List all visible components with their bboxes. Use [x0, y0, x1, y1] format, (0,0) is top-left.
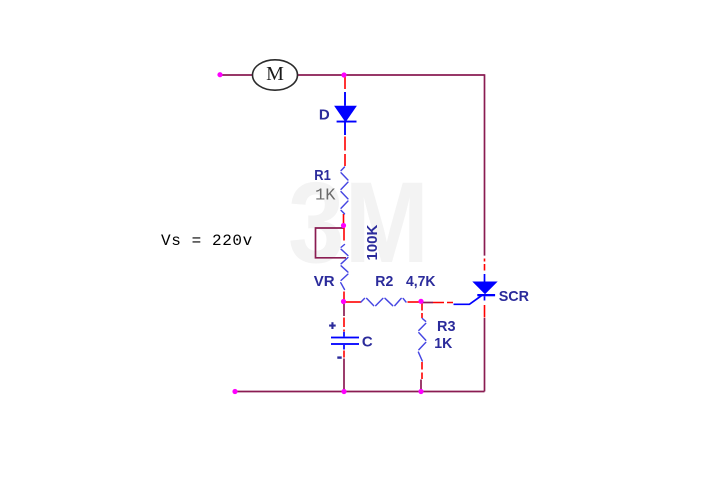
svg-text:M: M: [266, 63, 284, 85]
wire red capacitor top lead: [343, 318, 345, 332]
label capacitor plus: [329, 322, 336, 329]
svg-text:4,7K: 4,7K: [406, 273, 436, 290]
svg-text:C: C: [362, 334, 373, 351]
diode D: [334, 92, 357, 135]
node VR bottom / R2 left junction: [341, 299, 346, 304]
wire VR wiper loop: [316, 228, 347, 258]
svg-text:1K: 1K: [315, 187, 336, 206]
capacitor C: [331, 332, 359, 350]
label capacitor minus: [337, 356, 341, 358]
wire red SCR anode lead: [484, 259, 486, 271]
node R3 bottom junction: [418, 389, 423, 394]
svg-text:R2: R2: [375, 273, 393, 290]
wire red diode anode stub: [344, 77, 346, 90]
wire top left stub: [220, 74, 253, 76]
wire R3 branch lower: [420, 380, 422, 392]
resistor VR (100K pot as rheostat): [341, 245, 348, 290]
svg-text:R1: R1: [314, 167, 331, 184]
wire red gate lead: [433, 302, 453, 304]
resistor R3: [418, 319, 425, 362]
svg-text:D: D: [319, 107, 330, 124]
wire red R1 bottom to node: [343, 214, 345, 224]
wire red node to VR top: [343, 228, 345, 241]
node capacitor bottom junction: [341, 389, 346, 394]
wire top horizontal: [297, 74, 485, 76]
node diode top junction: [341, 72, 346, 77]
wire capacitor branch lower: [343, 359, 345, 392]
svg-text:SCR: SCR: [499, 288, 529, 305]
wire right vertical lower: [484, 318, 486, 392]
svg-text:Vs = 220v: Vs = 220v: [161, 232, 253, 250]
svg-text:3M: 3M: [288, 159, 429, 287]
wire red VR bottom to node: [343, 292, 345, 301]
resistor R1: [341, 167, 348, 214]
wire red R3 top lead: [421, 304, 423, 319]
wire red R2 left stub: [345, 301, 361, 303]
resistor R2: [361, 298, 406, 305]
wire capacitor branch upper: [343, 302, 345, 316]
SCR Q1: [454, 274, 498, 304]
node R2 right / R3 top junction: [418, 299, 423, 304]
wire gate stub: [421, 302, 433, 304]
wire red R2 right stub: [408, 301, 420, 303]
svg-text:VR: VR: [314, 273, 335, 290]
wire red SCR cathode lead: [484, 305, 486, 318]
node VR top junction: [341, 223, 346, 228]
svg-text:R3: R3: [437, 318, 456, 335]
node bottom-left terminal: [232, 389, 237, 394]
motor M: [253, 60, 298, 90]
wire red diode cathode to R1: [344, 137, 346, 167]
wire red capacitor bottom lead: [343, 351, 345, 358]
wire bottom horizontal: [235, 391, 485, 393]
wire red R3 bottom lead: [421, 362, 423, 379]
svg-text:100K: 100K: [364, 224, 381, 260]
node top-left terminal: [217, 72, 222, 77]
svg-text:1K: 1K: [434, 335, 452, 352]
wire right vertical upper: [484, 74, 486, 255]
